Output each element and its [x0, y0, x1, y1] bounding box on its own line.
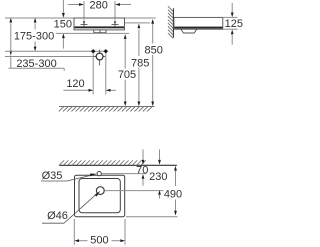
- dimension 120: [63, 78, 116, 92]
- svg-text:Ø46: Ø46: [47, 210, 68, 222]
- verticals below diamonds: [92, 54, 94, 95]
- dimension 70: [136, 150, 148, 186]
- dimension 500: [74, 219, 125, 247]
- mounting hole marks: [81, 18, 119, 27]
- svg-text:Ø35: Ø35: [42, 170, 63, 182]
- bottom ext line for 490: [126, 216, 178, 218]
- basin front outline: [74, 18, 125, 33]
- drain circle front view: [94, 50, 105, 66]
- dimension 230: [149, 150, 167, 199]
- tap center line: [102, 173, 147, 175]
- svg-text:125: 125: [225, 18, 243, 30]
- extension line from tab bottom: [56, 32, 129, 34]
- svg-text:490: 490: [164, 189, 182, 201]
- dimension 785: [131, 24, 149, 107]
- dimension 280: [68, 0, 131, 18]
- drain tab under basin: [94, 30, 106, 33]
- supply line references: [5, 50, 107, 52]
- top reference extension line: [5, 17, 156, 19]
- wall line: [59, 164, 177, 166]
- basin side profile: [174, 17, 223, 33]
- svg-text:150: 150: [54, 18, 72, 30]
- svg-text:785: 785: [131, 57, 149, 69]
- drain center line: [105, 190, 164, 192]
- wall hatching: [168, 6, 173, 38]
- dimension 705: [118, 34, 136, 106]
- svg-text:70: 70: [136, 165, 148, 177]
- svg-text:235-300: 235-300: [16, 58, 56, 70]
- svg-text:500: 500: [90, 235, 108, 247]
- label O35 with leader: [41, 170, 97, 182]
- floor line and hatching: [59, 107, 155, 112]
- tap hole: [97, 172, 101, 176]
- extension line at y23 to 785: [125, 22, 150, 24]
- svg-text:120: 120: [66, 78, 84, 90]
- dimension 125: [223, 3, 243, 45]
- wall hatching above: [60, 160, 146, 165]
- basin plan inner bowl: [79, 179, 120, 213]
- svg-text:705: 705: [118, 69, 136, 81]
- svg-text:280: 280: [90, 0, 108, 12]
- dimension 150: [54, 0, 72, 49]
- bowl bottom bump: [181, 29, 197, 33]
- dimension 490: [164, 166, 182, 216]
- svg-text:230: 230: [149, 171, 167, 183]
- basin plan outer rect: [75, 175, 125, 217]
- dimension 175-300: [14, 18, 54, 52]
- dimension 850: [145, 19, 163, 106]
- dimension 235-300: [9, 18, 65, 71]
- wall line: [172, 8, 174, 37]
- drain circle plan: [96, 187, 104, 195]
- supply connection diamonds: [91, 49, 96, 54]
- label O46 with leader: [42, 191, 100, 223]
- svg-text:850: 850: [145, 44, 163, 56]
- svg-text:175-300: 175-300: [14, 31, 54, 43]
